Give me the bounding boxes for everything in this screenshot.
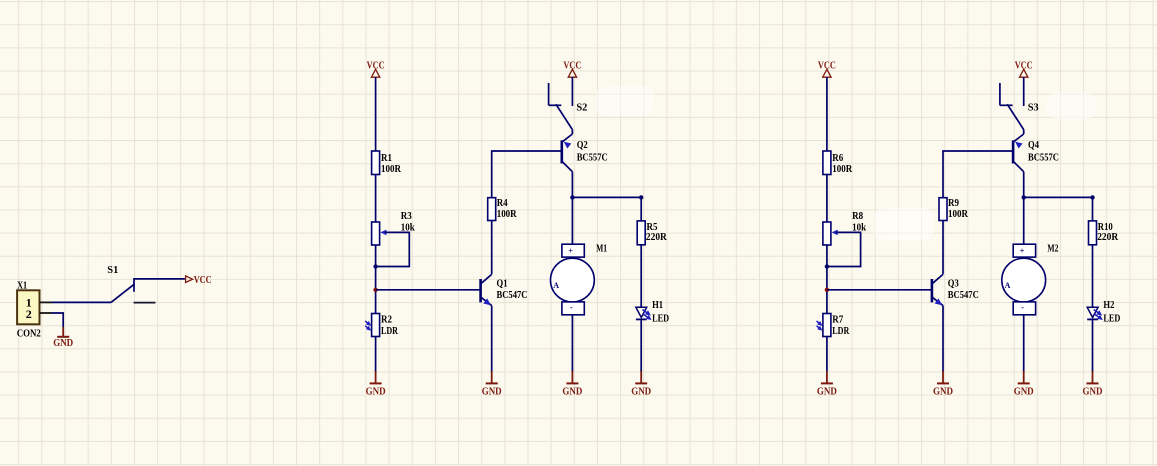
wire collector down to motor	[1023, 172, 1025, 245]
wire LDR to ground	[375, 337, 377, 373]
svg-text:GND: GND	[562, 385, 582, 397]
svg-text:BC557C: BC557C	[1028, 152, 1059, 164]
wire pin2 to ground	[52, 313, 64, 327]
svg-text:LED: LED	[652, 312, 669, 324]
svg-text:R2: R2	[381, 314, 392, 326]
wire LED to ground	[640, 319, 642, 372]
svg-text:GND: GND	[1014, 385, 1034, 397]
svg-text:BC547C: BC547C	[948, 289, 979, 301]
wire LED to ground	[1092, 319, 1094, 372]
power port VCC (VCC)	[367, 60, 385, 78]
transistor Q2 BC557C (PNP)	[562, 130, 608, 172]
ground GND	[562, 371, 582, 397]
svg-text:S2: S2	[576, 102, 587, 114]
wire R to potentiometer	[826, 175, 828, 223]
svg-text:100R: 100R	[948, 208, 969, 220]
wire base node to Q3 base	[827, 289, 932, 291]
resistor R4 100R	[488, 197, 518, 220]
power port VCC (VCC)	[818, 60, 836, 78]
pin 2	[26, 307, 52, 321]
motor M1	[551, 243, 608, 315]
svg-text:LED: LED	[1103, 312, 1120, 324]
pin 1	[26, 296, 52, 310]
resistor R10 220R	[1089, 221, 1120, 245]
power port VCC (at S1)	[186, 274, 212, 286]
potentiometer R8 10k	[823, 210, 867, 245]
junction dot base node (base node 1)	[373, 288, 377, 292]
wire R to LED H1	[640, 245, 642, 307]
svg-text:2: 2	[26, 307, 32, 321]
resistor R1 100R	[372, 151, 402, 175]
svg-text:GND: GND	[53, 337, 73, 349]
svg-text:+: +	[568, 246, 573, 256]
designator X1	[17, 280, 27, 292]
svg-text:M1: M1	[596, 243, 607, 255]
svg-text:CON2: CON2	[17, 328, 41, 340]
wire collector node to R5	[572, 196, 641, 198]
ground GND	[482, 371, 502, 397]
wire collector node to R10	[1024, 196, 1093, 198]
svg-text:GND: GND	[482, 385, 502, 397]
ground GND	[1083, 371, 1103, 397]
junction dot base node (base node 2)	[825, 288, 829, 292]
svg-text:GND: GND	[1083, 385, 1103, 397]
svg-text:A: A	[553, 281, 559, 290]
svg-text:BC557C: BC557C	[577, 152, 608, 164]
svg-text:GND: GND	[366, 385, 386, 397]
svg-text:H1: H1	[652, 299, 663, 311]
wire divider chain	[826, 245, 828, 314]
svg-text:100R: 100R	[381, 163, 402, 175]
ground GND	[1014, 371, 1034, 397]
junction dot wiper/divider node	[373, 264, 377, 268]
svg-text:220R: 220R	[646, 231, 668, 243]
wire VCC to R top	[826, 77, 828, 151]
svg-text:GND: GND	[631, 385, 651, 397]
resistor R9 100R	[939, 197, 969, 220]
power port VCC (VCC)	[1015, 60, 1033, 78]
ground GND	[933, 371, 953, 397]
wire node to R5	[640, 197, 642, 221]
wire emitter to ground	[491, 306, 493, 372]
motor M2	[1002, 243, 1059, 315]
ground GND	[631, 371, 651, 397]
svg-text:-: -	[1021, 302, 1024, 312]
svg-text:R3: R3	[401, 210, 412, 222]
svg-text:+: +	[1020, 246, 1025, 256]
connector X1 CON2	[17, 290, 39, 324]
svg-text:100R: 100R	[832, 163, 853, 175]
wire VCC to R top	[375, 77, 377, 151]
junction dot at R10 top	[1090, 195, 1094, 199]
wire collector down to motor	[571, 172, 573, 245]
junction dot collector node	[570, 195, 574, 199]
switch S1	[107, 264, 185, 303]
power port VCC (VCC)	[563, 60, 581, 78]
wire Q2 base to R top	[492, 151, 562, 198]
svg-text:GND: GND	[933, 385, 953, 397]
LDR R7	[817, 314, 851, 338]
junction dot at R5 top	[639, 195, 643, 199]
wire R to Q1 collector	[491, 221, 493, 275]
svg-text:R8: R8	[852, 210, 863, 222]
svg-text:LDR: LDR	[832, 325, 850, 337]
svg-text:A: A	[1005, 281, 1011, 290]
wire wiper loop	[376, 232, 410, 266]
svg-text:100R: 100R	[497, 208, 518, 220]
ground GND	[366, 371, 386, 397]
wire divider chain	[375, 245, 377, 314]
junction dot collector node	[1022, 195, 1026, 199]
transistor Q4 BC557C (PNP)	[1013, 130, 1059, 172]
wire emitter to ground	[942, 306, 944, 372]
wire motor to ground	[1023, 315, 1025, 372]
svg-text:-: -	[570, 302, 573, 312]
ground GND	[817, 371, 837, 397]
LED H2	[1087, 299, 1120, 324]
switch S2	[549, 83, 588, 130]
LED H1	[636, 299, 669, 324]
svg-text:S3: S3	[1028, 102, 1039, 114]
potentiometer R3 10k	[372, 210, 416, 245]
resistor R6 100R	[823, 151, 853, 175]
wire R to LED H2	[1092, 245, 1094, 307]
svg-text:Q1: Q1	[497, 278, 508, 290]
wire R to Q3 collector	[942, 221, 944, 275]
wire LDR to ground	[826, 337, 828, 373]
svg-text:BC547C: BC547C	[497, 289, 528, 301]
svg-text:LDR: LDR	[381, 325, 399, 337]
wire wiper loop	[827, 232, 861, 266]
resistor R5 220R	[637, 221, 668, 245]
junction dot wiper/divider node	[825, 264, 829, 268]
svg-text:R7: R7	[832, 314, 843, 326]
transistor Q3 BC547C (NPN)	[932, 274, 979, 305]
svg-text:Q2: Q2	[577, 139, 588, 151]
svg-text:GND: GND	[817, 385, 837, 397]
LDR R2	[365, 314, 399, 338]
switch S3	[1000, 83, 1039, 130]
svg-text:220R: 220R	[1097, 231, 1119, 243]
svg-text:Q3: Q3	[948, 278, 959, 290]
wire motor to ground	[571, 315, 573, 372]
wire base node to Q1 base	[376, 289, 481, 291]
svg-text:M2: M2	[1047, 243, 1058, 255]
wire pin1 to switch S1	[52, 301, 112, 303]
wire R to potentiometer	[375, 175, 377, 223]
svg-text:VCC: VCC	[194, 274, 212, 286]
svg-text:Q4: Q4	[1028, 139, 1039, 151]
value CON2	[17, 328, 41, 340]
wire VCC to switch	[1023, 77, 1025, 106]
transistor Q1 BC547C (NPN)	[481, 274, 528, 305]
svg-text:X1: X1	[17, 280, 27, 292]
svg-text:S1: S1	[107, 264, 118, 276]
wire VCC to switch	[571, 77, 573, 106]
wire node to R10	[1092, 197, 1094, 221]
wire Q4 base to R top	[943, 151, 1013, 198]
ground (X1 pin 2)	[53, 327, 73, 349]
svg-text:H2: H2	[1103, 299, 1114, 311]
